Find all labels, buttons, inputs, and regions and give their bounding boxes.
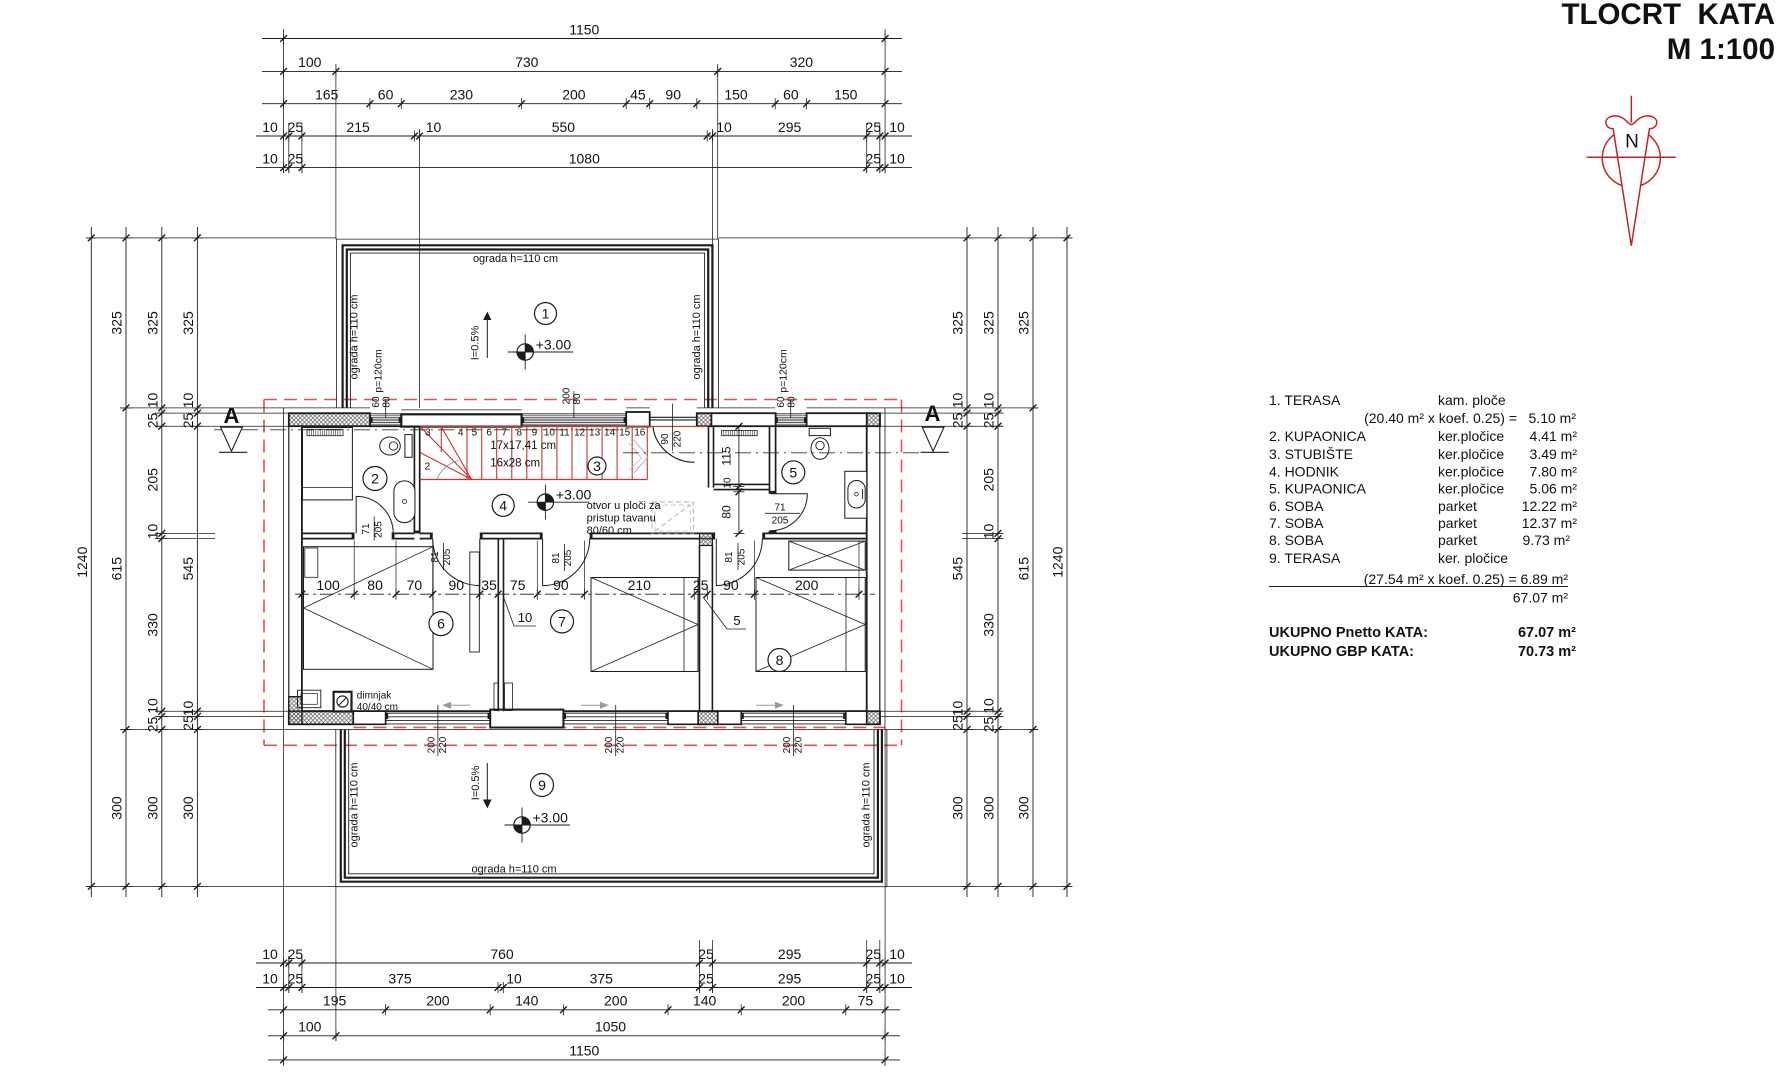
west wall <box>284 408 302 730</box>
north insulation outer line <box>284 407 370 409</box>
svg-text:295: 295 <box>778 946 802 962</box>
bottom chain row5 <box>268 1043 900 1066</box>
svg-text:300: 300 <box>950 796 966 820</box>
svg-text:p=120cm: p=120cm <box>778 349 790 393</box>
svg-text:5: 5 <box>733 613 740 628</box>
svg-text:71: 71 <box>361 523 372 535</box>
svg-text:9. TERASA: 9. TERASA <box>1269 550 1341 566</box>
nightstands rooms 6-7 <box>494 683 498 711</box>
bottom chain row2 <box>256 970 912 993</box>
svg-text:25: 25 <box>288 119 304 135</box>
svg-text:615: 615 <box>109 557 125 581</box>
svg-text:300: 300 <box>180 796 196 820</box>
level marker +3.00 terrace 9 <box>505 808 571 843</box>
closet partition wall east of staircase <box>709 426 714 487</box>
svg-text:140: 140 <box>515 993 539 1009</box>
top chain 100/730/320 <box>262 54 902 77</box>
svg-text:16x28 cm: 16x28 cm <box>490 457 540 469</box>
svg-text:1240: 1240 <box>74 546 90 577</box>
svg-text:60: 60 <box>378 87 394 103</box>
room number 3 <box>588 457 606 475</box>
room number 2 <box>363 467 387 491</box>
svg-text:(27.54 m² x koef. 0.25) = 6.89: (27.54 m² x koef. 0.25) = 6.89 m² <box>1364 571 1569 587</box>
svg-text:25: 25 <box>950 715 966 731</box>
svg-text:25: 25 <box>288 970 304 986</box>
svg-text:+3.00: +3.00 <box>536 337 572 353</box>
svg-text:100: 100 <box>298 1019 322 1035</box>
south-east corner hatched pier <box>867 711 880 724</box>
door label 81/205 room 6 <box>430 543 453 570</box>
right chain total <box>1050 227 1073 897</box>
svg-text:60: 60 <box>776 396 787 408</box>
svg-text:25: 25 <box>288 150 304 166</box>
svg-text:205: 205 <box>144 468 160 492</box>
svg-text:1150: 1150 <box>569 1043 599 1059</box>
room number 1 <box>535 303 557 325</box>
legend room list <box>1269 392 1577 587</box>
WC bathroom 2 <box>380 435 412 458</box>
legend sum line <box>1269 586 1568 588</box>
svg-text:8: 8 <box>776 652 784 668</box>
svg-text:1240: 1240 <box>1050 546 1066 577</box>
svg-text:1150: 1150 <box>569 21 599 37</box>
svg-text:10: 10 <box>544 428 556 439</box>
bottom block witness lines <box>284 730 886 1067</box>
wardrobe room 8 <box>789 541 865 570</box>
svg-text:TLOCRT KATA: TLOCRT KATA <box>1561 0 1775 31</box>
wardrobe room 6 <box>470 552 480 652</box>
svg-text:200: 200 <box>562 387 573 404</box>
door label 81/205 room 7 <box>551 544 574 571</box>
stair exit opening 90/220 annotation <box>660 404 684 451</box>
svg-text:70: 70 <box>407 577 423 593</box>
svg-text:6. SOBA: 6. SOBA <box>1269 498 1324 514</box>
svg-text:UKUPNO GBP KATA:: UKUPNO GBP KATA: <box>1269 644 1414 660</box>
svg-text:1050: 1050 <box>595 1019 626 1035</box>
section marker A right <box>921 401 949 452</box>
south window 200/220 room 8 <box>741 713 846 724</box>
svg-text:81: 81 <box>430 551 441 563</box>
svg-text:4. HODNIK: 4. HODNIK <box>1269 464 1340 480</box>
top chain room widths <box>262 87 902 110</box>
bathtub bathroom 2 <box>394 481 415 523</box>
svg-text:10: 10 <box>889 946 905 962</box>
window annotation 200/80 staircase <box>562 387 584 417</box>
svg-text:205: 205 <box>772 516 789 527</box>
svg-text:17x17,41 cm: 17x17,41 cm <box>490 440 556 452</box>
right chain 2 <box>981 227 1004 897</box>
room number 8 <box>768 649 791 672</box>
radiator closet/bath 5 <box>722 431 758 436</box>
staircase west partition wall <box>414 426 419 533</box>
svg-text:80: 80 <box>572 393 583 405</box>
svg-text:140: 140 <box>693 993 717 1009</box>
svg-text:ker.pločice: ker.pločice <box>1438 464 1504 480</box>
south wall panel pier between windows 1-2 <box>490 710 563 728</box>
svg-text:A: A <box>224 403 240 428</box>
room number 5 <box>782 461 805 484</box>
svg-text:ograda h=110 cm: ograda h=110 cm <box>349 762 361 847</box>
south window annotations 200/220 <box>426 705 449 756</box>
svg-text:25: 25 <box>698 946 714 962</box>
svg-text:760: 760 <box>490 946 514 962</box>
svg-text:10: 10 <box>950 701 966 717</box>
svg-text:165: 165 <box>315 87 339 103</box>
svg-text:60: 60 <box>371 396 382 408</box>
svg-text:4: 4 <box>499 497 507 513</box>
svg-text:220: 220 <box>438 736 449 753</box>
window 60/80 bathroom 5 <box>775 414 806 426</box>
svg-text:25: 25 <box>180 715 196 731</box>
north wall plain pier 45 <box>626 412 650 427</box>
door 81/205 room 7 <box>543 539 590 586</box>
window 200/80 staircase <box>522 414 627 426</box>
svg-text:150: 150 <box>834 87 858 103</box>
svg-text:UKUPNO Pnetto KATA:: UKUPNO Pnetto KATA: <box>1269 625 1428 641</box>
svg-text:220: 220 <box>794 736 805 753</box>
svg-text:7.80 m²: 7.80 m² <box>1530 464 1578 480</box>
north arrow <box>1587 96 1676 246</box>
svg-text:100: 100 <box>298 54 322 70</box>
svg-text:25: 25 <box>981 717 997 733</box>
svg-text:10: 10 <box>144 393 160 409</box>
svg-text:81: 81 <box>724 551 735 563</box>
svg-text:I=0.5%: I=0.5% <box>470 766 482 801</box>
terrace 9 railing (ograda) <box>336 729 887 886</box>
svg-text:10: 10 <box>262 150 278 166</box>
svg-text:325: 325 <box>144 311 160 335</box>
top chain total 1150 <box>262 21 902 44</box>
svg-text:2. KUPAONICA: 2. KUPAONICA <box>1269 428 1367 444</box>
svg-text:otvor u ploči za: otvor u ploči za <box>587 500 662 512</box>
svg-text:9: 9 <box>532 428 538 439</box>
svg-text:10: 10 <box>262 970 278 986</box>
svg-text:200: 200 <box>426 736 437 753</box>
legend totals <box>1269 625 1576 660</box>
svg-text:10: 10 <box>180 701 196 717</box>
svg-text:7. SOBA: 7. SOBA <box>1269 515 1324 531</box>
shower bathroom 2 <box>303 428 353 500</box>
svg-text:8. SOBA: 8. SOBA <box>1269 532 1324 548</box>
svg-text:2: 2 <box>371 471 379 487</box>
east wall <box>867 408 885 730</box>
svg-text:205: 205 <box>981 468 997 492</box>
south window 200/220 room 6 <box>386 713 491 724</box>
north wall closet band pier <box>711 413 775 426</box>
bottom chain row1 <box>256 946 912 969</box>
closet niche dim 115/10/80 <box>720 423 745 537</box>
svg-text:545: 545 <box>950 557 966 581</box>
south window 200/220 room 7 <box>563 713 668 724</box>
svg-text:5: 5 <box>789 464 797 480</box>
south-west corner hatched pier <box>289 697 302 725</box>
bed room 7 <box>591 578 698 672</box>
svg-text:70.73 m²: 70.73 m² <box>1518 644 1576 660</box>
svg-text:ker. pločice: ker. pločice <box>1438 550 1508 566</box>
door label 81/205 room 8 <box>724 543 748 570</box>
svg-text:3. STUBIŠTE: 3. STUBIŠTE <box>1269 446 1353 462</box>
south wall outer line <box>284 729 885 731</box>
red dashed gabarit outline <box>264 400 902 746</box>
right chain 1 <box>950 227 973 897</box>
bathroom 5 west partition wall <box>770 426 776 533</box>
svg-text:325: 325 <box>109 311 125 335</box>
staircase walk line arc <box>437 461 459 480</box>
svg-text:330: 330 <box>981 613 997 637</box>
svg-text:35: 35 <box>481 577 497 593</box>
radiator bathroom 2 <box>307 429 343 435</box>
svg-text:200: 200 <box>604 736 615 753</box>
attic access opening dashed <box>652 502 693 534</box>
left chain 3 <box>144 227 167 897</box>
svg-text:71: 71 <box>774 503 786 514</box>
svg-text:5. KUPAONICA: 5. KUPAONICA <box>1269 481 1367 497</box>
svg-text:10: 10 <box>506 970 522 986</box>
red slab-edge line at staircase <box>420 425 709 427</box>
svg-text:10: 10 <box>518 610 532 625</box>
svg-text:pristup tavanu: pristup tavanu <box>587 513 656 525</box>
svg-text:ker.pločice: ker.pločice <box>1438 446 1504 462</box>
terrace door 230 panel <box>401 409 521 411</box>
svg-text:200: 200 <box>782 736 793 753</box>
svg-text:40/40 cm: 40/40 cm <box>357 702 398 713</box>
svg-text:295: 295 <box>778 119 802 135</box>
svg-text:80: 80 <box>382 396 393 408</box>
bottom chain row3 <box>268 993 900 1016</box>
svg-text:ker.pločice: ker.pločice <box>1438 481 1504 497</box>
svg-text:10: 10 <box>426 119 442 135</box>
svg-text:75: 75 <box>858 993 874 1009</box>
svg-text:325: 325 <box>981 311 997 335</box>
north wall pier east of window <box>807 413 867 426</box>
north-east corner hatched pier <box>867 413 880 426</box>
svg-text:90: 90 <box>665 87 681 103</box>
room number 9 <box>531 774 554 797</box>
svg-text:parket: parket <box>1438 498 1477 514</box>
svg-text:kam. ploče: kam. ploče <box>1438 392 1506 408</box>
svg-text:200: 200 <box>426 993 450 1009</box>
svg-text:ograda h=110 cm: ograda h=110 cm <box>349 294 361 379</box>
svg-text:5.06 m²: 5.06 m² <box>1530 481 1578 497</box>
svg-text:parket: parket <box>1438 515 1477 531</box>
staircase winder risers <box>420 427 471 480</box>
svg-text:M 1:100: M 1:100 <box>1667 33 1775 66</box>
svg-text:13: 13 <box>589 428 601 439</box>
svg-text:200: 200 <box>562 87 586 103</box>
svg-text:I=0.5%: I=0.5% <box>470 326 482 361</box>
svg-text:12.37 m²: 12.37 m² <box>1522 515 1578 531</box>
svg-text:5.10 m²: 5.10 m² <box>1529 410 1577 426</box>
svg-text:90: 90 <box>723 577 739 593</box>
svg-text:8: 8 <box>517 428 523 439</box>
svg-text:4: 4 <box>458 428 464 439</box>
svg-text:300: 300 <box>144 796 160 820</box>
south wall pier east of window 3 <box>846 711 867 724</box>
svg-text:210: 210 <box>628 577 652 593</box>
svg-text:75: 75 <box>510 577 526 593</box>
door label 71/205 bathroom2 <box>361 517 385 541</box>
svg-text:90: 90 <box>553 577 569 593</box>
wall between rooms 7 and 8 (25cm) <box>700 533 713 711</box>
svg-text:195: 195 <box>323 993 347 1009</box>
left block witness lines <box>86 238 336 887</box>
svg-text:325: 325 <box>1016 311 1032 335</box>
WC bathroom 5 <box>809 428 830 459</box>
slope arrow terrace 9 <box>470 763 492 809</box>
north wall hatched pier west <box>289 413 370 426</box>
svg-text:115: 115 <box>720 446 734 465</box>
bed room 8 <box>756 578 865 672</box>
left chain 4 <box>180 227 203 897</box>
door label 71/205 bathroom 5 <box>765 503 800 527</box>
svg-text:6: 6 <box>437 616 445 632</box>
svg-text:25: 25 <box>866 119 882 135</box>
svg-text:10: 10 <box>180 393 196 409</box>
svg-text:ograda h=110 cm: ograda h=110 cm <box>473 253 558 265</box>
svg-text:parket: parket <box>1438 532 1477 548</box>
svg-text:200: 200 <box>782 993 806 1009</box>
svg-text:10: 10 <box>950 393 966 409</box>
staircase red risers <box>420 426 648 479</box>
svg-text:10: 10 <box>981 393 997 409</box>
south wall plain piers <box>353 711 385 724</box>
door 81/205 room 6 <box>433 539 480 586</box>
svg-text:25: 25 <box>866 150 882 166</box>
svg-text:545: 545 <box>180 557 196 581</box>
window annotation 60/80 + p=120 west <box>371 349 393 417</box>
svg-text:14: 14 <box>604 428 616 439</box>
svg-text:15: 15 <box>619 428 631 439</box>
svg-text:3.49 m²: 3.49 m² <box>1530 446 1578 462</box>
svg-text:325: 325 <box>180 311 196 335</box>
svg-text:230: 230 <box>450 87 474 103</box>
svg-text:10: 10 <box>889 150 905 166</box>
staircase tread numbers <box>425 428 646 473</box>
svg-text:10: 10 <box>723 477 734 489</box>
svg-text:80: 80 <box>720 505 734 519</box>
svg-text:25: 25 <box>866 946 882 962</box>
svg-text:12: 12 <box>574 428 586 439</box>
svg-text:25: 25 <box>866 970 882 986</box>
door 81/205 room 8 <box>716 539 762 586</box>
svg-text:550: 550 <box>552 119 576 135</box>
svg-text:67.07 m²: 67.07 m² <box>1518 625 1576 641</box>
svg-text:100: 100 <box>316 577 340 593</box>
top block witness lines <box>284 29 886 408</box>
south wall interior face <box>302 710 867 712</box>
corridor partition wall (south of rooms 2-5) <box>302 533 867 538</box>
svg-text:615: 615 <box>1016 557 1032 581</box>
bottom chain row4 <box>268 1019 900 1042</box>
closet bottom wall <box>714 484 770 489</box>
vanity basin bathroom 5 <box>845 471 867 518</box>
staircase red flight edge bottom <box>420 479 648 481</box>
right chain 3 <box>1016 227 1039 897</box>
svg-text:9: 9 <box>538 777 546 793</box>
svg-text:25: 25 <box>698 970 714 986</box>
svg-text:300: 300 <box>109 796 125 820</box>
room number 6 <box>429 612 453 636</box>
svg-text:295: 295 <box>778 970 802 986</box>
svg-text:7: 7 <box>502 428 508 439</box>
south wall hatched pier mid <box>698 711 718 724</box>
sliding direction arrows <box>449 704 470 706</box>
svg-text:200: 200 <box>604 993 628 1009</box>
room number 4 <box>492 494 514 516</box>
top chain wall details <box>256 119 912 142</box>
svg-text:3: 3 <box>593 458 601 474</box>
svg-text:1080: 1080 <box>569 150 600 166</box>
room number 7 <box>551 610 574 633</box>
svg-text:10: 10 <box>889 970 905 986</box>
attic note text <box>587 500 662 537</box>
svg-text:375: 375 <box>388 970 412 986</box>
top chain 1080 <box>256 150 912 173</box>
svg-text:3: 3 <box>425 428 431 439</box>
svg-text:10: 10 <box>889 119 905 135</box>
terrace 1 railing (ograda) <box>336 239 718 408</box>
svg-text:p=120cm: p=120cm <box>373 349 385 393</box>
svg-text:4.41 m²: 4.41 m² <box>1530 428 1578 444</box>
left chain total <box>74 227 97 897</box>
interior dimension chain rooms <box>295 541 875 600</box>
svg-text:16: 16 <box>634 428 646 439</box>
section marker A left <box>219 403 247 452</box>
svg-text:ograda h=110 cm: ograda h=110 cm <box>471 864 556 876</box>
svg-text:300: 300 <box>1016 796 1032 820</box>
svg-text:+3.00: +3.00 <box>533 810 569 826</box>
svg-text:330: 330 <box>144 613 160 637</box>
terrace door 90/220 to staircase <box>650 417 697 462</box>
svg-text:67.07 m²: 67.07 m² <box>1513 590 1569 606</box>
window annotation 60/80 + p=120 east <box>776 349 798 417</box>
svg-text:11: 11 <box>559 428 570 439</box>
left chain 2 <box>109 227 132 897</box>
nightstand room 6 <box>298 690 321 708</box>
svg-text:(20.40 m² x koef. 0.25) =: (20.40 m² x koef. 0.25) = <box>1364 410 1517 426</box>
chimney dimnjak <box>334 692 352 712</box>
svg-text:215: 215 <box>346 119 370 135</box>
svg-text:7: 7 <box>558 613 566 629</box>
svg-text:dimnjak: dimnjak <box>357 691 392 702</box>
svg-text:10: 10 <box>716 119 732 135</box>
svg-text:1. TERASA: 1. TERASA <box>1269 392 1341 408</box>
svg-text:12.22 m²: 12.22 m² <box>1522 498 1578 514</box>
svg-text:150: 150 <box>724 87 748 103</box>
svg-text:300: 300 <box>981 796 997 820</box>
svg-text:90: 90 <box>449 577 465 593</box>
svg-text:10: 10 <box>262 119 278 135</box>
wall offset leader 5 <box>703 597 746 629</box>
svg-text:2: 2 <box>425 462 431 473</box>
right block witness lines <box>719 238 1072 887</box>
svg-text:A: A <box>925 401 941 426</box>
wall between rooms 6 and 7 <box>498 539 503 712</box>
door 71/205 bathroom 5 <box>770 494 807 531</box>
door 71/205 bathroom 2 <box>356 496 393 533</box>
svg-text:6: 6 <box>486 428 492 439</box>
svg-text:80: 80 <box>367 577 383 593</box>
svg-text:730: 730 <box>515 54 539 70</box>
svg-text:80: 80 <box>787 396 798 408</box>
svg-text:ograda h=110 cm: ograda h=110 cm <box>691 294 703 379</box>
svg-text:1: 1 <box>542 306 550 322</box>
svg-text:200: 200 <box>795 577 819 593</box>
svg-text:90: 90 <box>660 433 671 445</box>
svg-text:10: 10 <box>981 524 997 540</box>
svg-text:25: 25 <box>288 946 304 962</box>
svg-text:ograda h=110 cm: ograda h=110 cm <box>861 762 873 847</box>
